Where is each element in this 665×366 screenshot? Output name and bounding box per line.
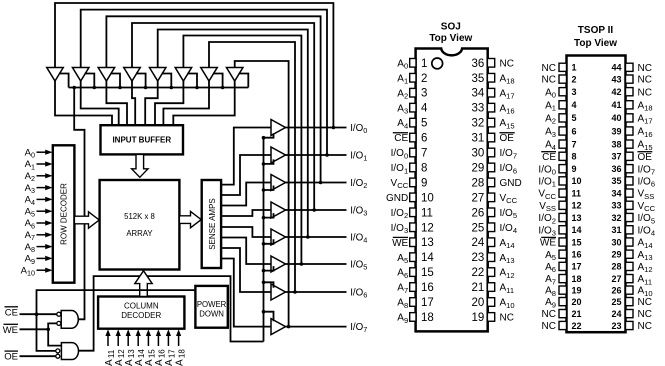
- node enable bus junction 4: [144, 86, 148, 90]
- arrowhead A11: [105, 329, 110, 336]
- svg-text:38: 38: [611, 139, 621, 149]
- svg-text:CE: CE: [5, 307, 18, 318]
- wire sense amp output 7 to output buffer 7: [221, 259, 271, 327]
- wire sense amp output 0 to output buffer 0: [221, 128, 271, 185]
- SOJ pin 6 overline: [393, 132, 408, 134]
- svg-text:17: 17: [572, 262, 582, 272]
- svg-text:A0: A0: [545, 87, 556, 99]
- SOJ package body: [416, 49, 488, 332]
- bubble U1 input 2: [57, 321, 61, 325]
- wire buffer 1 output to input buffer block: [55, 81, 112, 125]
- TSOP pin 9 box: [559, 165, 567, 173]
- wire input-buffer enable bus: [69, 87, 249, 89]
- svg-text:A14: A14: [638, 238, 653, 250]
- block INPUT BUFFER: [101, 125, 184, 154]
- arrowhead A5: [45, 209, 52, 214]
- TSOP pin 10 box: [559, 177, 567, 185]
- svg-text:36: 36: [611, 164, 621, 174]
- node enable bus junction 3: [118, 86, 122, 90]
- wire enable stub to output buffer 3: [264, 213, 274, 218]
- svg-text:A5: A5: [25, 206, 35, 218]
- svg-text:11: 11: [421, 207, 433, 219]
- SOJ pin 4 box: [410, 103, 416, 112]
- wire enable step buffer 1: [59, 74, 69, 88]
- wire enable step buffer 5: [162, 74, 172, 88]
- svg-text:16: 16: [421, 282, 434, 294]
- svg-text:I/O0: I/O0: [391, 148, 409, 160]
- wire feedback loop I/O0 (output line to input buffer 1): [55, 3, 333, 128]
- buffer input-stage triangle 8: [226, 68, 243, 82]
- wire CE: [20, 313, 57, 315]
- TSOP pin 30 box: [626, 238, 634, 246]
- svg-text:SENSE AMPS: SENSE AMPS: [208, 198, 217, 250]
- svg-text:9: 9: [572, 164, 577, 174]
- svg-text:7: 7: [572, 139, 577, 149]
- wire address input A9: [37, 257, 47, 259]
- gate U2 (output control AND gate): [61, 343, 78, 360]
- arrowhead A9: [45, 256, 52, 261]
- svg-text:WE: WE: [3, 325, 18, 336]
- TSOP pin 14 box: [559, 226, 567, 234]
- svg-text:28: 28: [611, 262, 621, 272]
- svg-text:A11: A11: [638, 274, 653, 286]
- svg-text:CE: CE: [394, 133, 408, 144]
- svg-text:4: 4: [572, 100, 577, 110]
- wire enable stub to output buffer 6: [264, 282, 274, 288]
- arrowhead A7: [45, 232, 52, 237]
- svg-text:27: 27: [611, 274, 621, 284]
- TSOP pin 17 box: [559, 262, 567, 270]
- SOJ pin 16 box: [410, 283, 416, 292]
- svg-text:A16: A16: [500, 103, 515, 115]
- svg-text:20: 20: [572, 297, 582, 307]
- TSOP pin 24 box: [626, 310, 634, 318]
- svg-text:A2: A2: [25, 171, 35, 183]
- svg-text:VCC: VCC: [638, 201, 656, 213]
- svg-text:25: 25: [611, 297, 621, 307]
- svg-text:I/O6: I/O6: [638, 177, 656, 189]
- svg-text:GND: GND: [386, 193, 408, 204]
- svg-text:39: 39: [611, 126, 621, 136]
- SOJ pin 27 box: [487, 193, 494, 202]
- TSOP pin 13 box: [559, 213, 567, 221]
- SOJ pin 13 overline: [393, 236, 408, 238]
- SOJ pin 12 box: [410, 223, 416, 232]
- svg-text:A10: A10: [500, 298, 515, 310]
- wire I/O5 output line: [286, 263, 347, 265]
- svg-text:10: 10: [421, 192, 434, 204]
- svg-text:I/O1: I/O1: [391, 163, 409, 175]
- svg-text:VSS: VSS: [638, 189, 655, 201]
- svg-text:OE: OE: [500, 133, 515, 144]
- TSOP pin 28 box: [626, 262, 634, 270]
- buffer output-stage triangle I/O3: [271, 202, 286, 218]
- svg-text:I/O1: I/O1: [538, 177, 556, 189]
- SOJ pin 8 box: [410, 163, 416, 172]
- svg-text:A10: A10: [638, 286, 653, 298]
- svg-text:28: 28: [472, 177, 485, 189]
- svg-text:COLUMN: COLUMN: [124, 301, 159, 310]
- wire feedback loop I/O3 (output line to input buffer 4): [132, 23, 314, 210]
- SOJ pin 2 box: [410, 73, 416, 82]
- svg-text:A15: A15: [638, 140, 653, 152]
- SOJ pin 22 box: [487, 268, 494, 277]
- arrowhead A18: [176, 329, 181, 336]
- svg-text:A12: A12: [500, 268, 515, 280]
- TSOP pin 8 box: [559, 152, 567, 160]
- svg-text:A8: A8: [25, 242, 35, 254]
- SOJ pin 33 box: [487, 103, 494, 112]
- svg-text:A8: A8: [545, 286, 556, 298]
- TSOP II package body: [567, 56, 626, 333]
- SOJ pin 21 box: [487, 283, 494, 292]
- SOJ pin 13 box: [410, 238, 416, 247]
- node junction loop I/O3 on output line: [312, 208, 316, 212]
- arrow array to sense amps (hollow right arrow): [179, 211, 201, 227]
- SOJ pin 17 box: [410, 298, 416, 307]
- svg-text:A6: A6: [397, 268, 408, 280]
- TSOP pin 38 box: [626, 140, 634, 148]
- wire address input A7: [37, 234, 47, 236]
- node junction loop I/O2 on output line: [319, 181, 323, 185]
- TSOP pin 15 overline: [541, 236, 556, 238]
- arrowhead A8: [45, 244, 52, 249]
- TSOP pin 36 box: [626, 165, 634, 173]
- svg-text:12: 12: [572, 201, 582, 211]
- svg-text:5: 5: [572, 113, 577, 123]
- wire sense amp output 3 to output buffer 3: [221, 210, 271, 216]
- svg-text:SOJ: SOJ: [441, 22, 461, 33]
- wire address input A6: [37, 222, 47, 224]
- arrowhead A6: [45, 220, 52, 225]
- arrowhead A12: [116, 329, 121, 336]
- wire enable step buffer 7: [213, 74, 223, 88]
- TSOP pin 37 box: [626, 152, 634, 160]
- svg-text:VSS: VSS: [539, 201, 556, 213]
- TSOP pin 42 box: [626, 88, 634, 96]
- arrowhead A13: [126, 329, 131, 336]
- svg-text:32: 32: [611, 213, 621, 223]
- svg-text:18: 18: [421, 312, 434, 324]
- svg-text:16: 16: [572, 250, 582, 260]
- svg-text:10: 10: [572, 176, 582, 186]
- svg-text:VCC: VCC: [391, 178, 409, 190]
- svg-text:A14: A14: [500, 238, 515, 250]
- arrowhead A17: [166, 329, 171, 336]
- buffer output-stage triangle I/O1: [271, 147, 286, 163]
- wire feedback loop I/O2 (output line to input buffer 3): [106, 16, 320, 182]
- svg-text:31: 31: [472, 133, 485, 145]
- wire address input A15: [147, 333, 149, 346]
- svg-text:25: 25: [472, 222, 485, 234]
- wire I/O2 output line: [286, 182, 347, 184]
- svg-text:OE: OE: [4, 352, 18, 363]
- wire I/O1 output line: [286, 154, 347, 156]
- wire address input A5: [37, 210, 47, 212]
- svg-text:11: 11: [572, 188, 582, 198]
- svg-text:A7: A7: [545, 274, 556, 286]
- svg-text:I/O2: I/O2: [538, 213, 556, 225]
- svg-text:5: 5: [421, 118, 427, 130]
- svg-text:I/O0: I/O0: [350, 123, 367, 135]
- svg-text:3: 3: [421, 88, 427, 100]
- svg-text:A4: A4: [25, 195, 35, 207]
- svg-text:A1: A1: [397, 73, 408, 85]
- wire address input A0: [37, 151, 47, 153]
- wire enable step buffer 6: [187, 74, 197, 88]
- svg-text:27: 27: [472, 192, 485, 204]
- svg-text:34: 34: [472, 88, 485, 100]
- wire buffer 7 output to input buffer block: [163, 81, 209, 125]
- node output enable junction 6: [262, 281, 266, 285]
- svg-text:30: 30: [611, 237, 621, 247]
- TSOP pin 25 box: [626, 298, 634, 306]
- SOJ pin 18 box: [410, 313, 416, 322]
- TSOP pin 7 box: [559, 140, 567, 148]
- TSOP pin 4 box: [559, 101, 567, 109]
- arrowhead A15: [146, 329, 151, 336]
- TSOP pin 5 box: [559, 114, 567, 122]
- TSOP pin 22 box: [559, 321, 567, 329]
- SOJ pin 34 box: [487, 88, 494, 97]
- TSOP pin 37 overline: [638, 151, 653, 153]
- svg-text:I/O7: I/O7: [350, 322, 367, 334]
- svg-text:VCC: VCC: [500, 193, 518, 205]
- wire enable stub to output buffer 2: [264, 186, 274, 191]
- svg-text:1: 1: [421, 58, 427, 70]
- wire WE to gate U1: [48, 323, 57, 329]
- svg-text:24: 24: [611, 309, 621, 319]
- svg-text:I/O6: I/O6: [350, 287, 367, 299]
- svg-text:A18: A18: [500, 73, 515, 85]
- svg-text:A3: A3: [397, 103, 408, 115]
- wire buffer 2 output to input buffer block: [81, 81, 119, 125]
- svg-text:A13: A13: [500, 253, 515, 265]
- svg-text:40: 40: [611, 113, 621, 123]
- svg-text:12: 12: [421, 222, 434, 234]
- svg-text:A6: A6: [25, 218, 35, 230]
- node output enable junction 5: [262, 269, 266, 273]
- wire I/O4 output line: [286, 236, 347, 238]
- svg-text:NC: NC: [638, 309, 652, 320]
- SOJ pin 31 box: [487, 133, 494, 142]
- svg-text:I/O7: I/O7: [500, 148, 518, 160]
- wire buffer 4 output to input buffer block: [132, 81, 135, 125]
- bubble U2 input 2: [56, 354, 60, 358]
- TSOP pin 31 box: [626, 226, 634, 234]
- svg-text:26: 26: [611, 285, 621, 295]
- wire address input A8: [37, 246, 47, 248]
- node enable bus junction 6: [195, 86, 199, 90]
- wire enable stub to output buffer 1: [264, 159, 274, 164]
- SOJ pin 1 box: [410, 59, 416, 68]
- TSOP pin 27 box: [626, 275, 634, 283]
- SOJ pin 7 box: [410, 148, 416, 157]
- svg-text:A5: A5: [397, 253, 408, 265]
- wire sense amp output 1 to output buffer 1: [221, 155, 271, 195]
- svg-text:19: 19: [472, 312, 485, 324]
- svg-text:NC: NC: [542, 63, 556, 74]
- svg-text:9: 9: [421, 177, 427, 189]
- TSOP pin 43 box: [626, 75, 634, 83]
- svg-text:I/O5: I/O5: [500, 208, 518, 220]
- SOJ pin 23 box: [487, 253, 494, 262]
- svg-text:CE: CE: [542, 152, 556, 163]
- buffer input-stage triangle 2: [72, 68, 89, 82]
- wire feedback loop I/O4 (output line to input buffer 5): [158, 30, 308, 238]
- wire address input A12: [117, 333, 119, 346]
- TSOP pin 11 box: [559, 189, 567, 197]
- svg-text:21: 21: [572, 309, 582, 319]
- svg-text:23: 23: [472, 252, 485, 264]
- svg-text:A10: A10: [21, 265, 35, 277]
- SOJ pin 1 index circle: [432, 58, 443, 69]
- svg-text:NC: NC: [638, 321, 652, 332]
- svg-text:A17: A17: [500, 88, 515, 100]
- wire address input A14: [137, 333, 139, 346]
- SOJ pin 9 box: [410, 178, 416, 187]
- svg-text:I/O1: I/O1: [350, 150, 367, 162]
- wire enable stub to output buffer 4: [264, 239, 274, 244]
- svg-text:13: 13: [421, 237, 434, 249]
- TSOP pin 40 box: [626, 114, 634, 122]
- wire address input A18: [178, 333, 180, 346]
- buffer output-stage triangle I/O7: [271, 319, 286, 335]
- svg-text:VCC: VCC: [538, 189, 556, 201]
- svg-text:42: 42: [611, 87, 621, 97]
- TSOP pin 21 box: [559, 310, 567, 318]
- svg-text:6: 6: [421, 133, 427, 145]
- svg-text:A7: A7: [25, 230, 35, 242]
- TSOP pin 8 overline: [541, 151, 556, 153]
- svg-text:NC: NC: [542, 75, 556, 86]
- svg-text:A0: A0: [397, 58, 408, 70]
- block 512K x 8 ARRAY: [100, 180, 180, 270]
- SOJ pin 28 box: [487, 178, 494, 187]
- block SENSE AMPS: [202, 180, 221, 268]
- SOJ pin 19 box: [487, 313, 494, 322]
- svg-text:29: 29: [611, 250, 621, 260]
- block ROW DECODER: [53, 145, 75, 282]
- arrow row decoder to array (hollow right arrow): [74, 212, 99, 228]
- svg-text:2: 2: [421, 73, 427, 85]
- SOJ pin 30 box: [487, 148, 494, 157]
- arrowhead A10: [45, 268, 52, 273]
- node output enable junction 7: [262, 310, 266, 314]
- TSOP pin 26 box: [626, 286, 634, 294]
- svg-text:I/O7: I/O7: [638, 164, 656, 176]
- svg-text:A16: A16: [638, 127, 653, 139]
- arrowhead A2: [45, 173, 52, 178]
- svg-text:A8: A8: [397, 298, 408, 310]
- svg-text:NC: NC: [638, 87, 652, 98]
- TSOP pin 15 box: [559, 238, 567, 246]
- wire I/O0 output line: [286, 127, 347, 129]
- TSOP pin 29 box: [626, 250, 634, 258]
- svg-text:ARRAY: ARRAY: [126, 229, 153, 238]
- buffer output-stage triangle I/O6: [271, 284, 286, 300]
- svg-text:I/O3: I/O3: [391, 223, 409, 235]
- TSOP pin 19 box: [559, 286, 567, 294]
- node junction loop I/O0 on output line: [332, 126, 336, 130]
- node CE junction: [35, 312, 39, 316]
- svg-text:A9: A9: [545, 297, 556, 309]
- svg-text:NC: NC: [638, 63, 652, 74]
- wire sense amp output 5 to output buffer 5: [221, 238, 271, 265]
- svg-text:21: 21: [472, 282, 485, 294]
- svg-text:32: 32: [472, 118, 485, 130]
- wire address input A11: [107, 333, 109, 346]
- svg-text:18: 18: [572, 274, 582, 284]
- SOJ pin 15 box: [410, 268, 416, 277]
- node enable bus junction 2: [93, 86, 97, 90]
- svg-text:I/O2: I/O2: [391, 208, 409, 220]
- svg-text:A2: A2: [545, 114, 556, 126]
- svg-text:A2: A2: [397, 88, 408, 100]
- svg-text:14: 14: [421, 252, 434, 264]
- gate U1 (write control AND gate): [61, 311, 78, 329]
- wire CE riser to power down: [37, 290, 196, 314]
- arrowhead A3: [45, 185, 52, 190]
- node enable bus junction 7: [221, 86, 225, 90]
- svg-text:I/O5: I/O5: [350, 259, 367, 271]
- wire enable stub to output buffer 0: [264, 133, 274, 138]
- SOJ pin 20 box: [487, 298, 494, 307]
- buffer input-stage triangle 4: [124, 68, 141, 82]
- bubble U1 input 1: [57, 312, 61, 316]
- svg-text:33: 33: [472, 103, 485, 115]
- svg-text:30: 30: [472, 148, 485, 160]
- TSOP pin 39 box: [626, 127, 634, 135]
- svg-text:8: 8: [572, 152, 577, 162]
- TSOP pin 12 box: [559, 201, 567, 209]
- node enable bus junction 5: [170, 86, 174, 90]
- overline CE: [5, 306, 19, 308]
- TSOP pin 44 box: [626, 63, 634, 71]
- wire CE drop to gate U2: [37, 314, 56, 351]
- svg-text:8: 8: [421, 162, 427, 174]
- overline WE: [4, 323, 19, 325]
- svg-text:31: 31: [611, 225, 621, 235]
- node output enable junction 4: [262, 242, 266, 246]
- svg-text:GND: GND: [500, 178, 522, 189]
- svg-text:6: 6: [572, 126, 577, 136]
- block POWER DOWN: [195, 286, 227, 328]
- wire enable step buffer 3: [110, 74, 120, 88]
- SOJ pin 3 box: [410, 88, 416, 97]
- TSOP pin 20 box: [559, 298, 567, 306]
- SOJ pin 14 box: [410, 253, 416, 262]
- svg-text:OE: OE: [638, 152, 653, 163]
- svg-text:A1: A1: [25, 159, 35, 171]
- wire feedback loop I/O5 (output line to input buffer 6): [183, 36, 301, 265]
- node junction loop I/O1 on output line: [325, 153, 329, 157]
- svg-text:22: 22: [472, 267, 485, 279]
- wire address input A16: [157, 333, 159, 346]
- wire buffer 8 output to input buffer block: [173, 81, 234, 125]
- svg-text:I/O4: I/O4: [638, 225, 656, 237]
- svg-text:15: 15: [421, 267, 434, 279]
- SOJ pin 31 overline: [500, 132, 515, 134]
- wire enable step buffer 2: [85, 74, 95, 88]
- arrowhead A14: [136, 329, 141, 336]
- svg-text:DECODER: DECODER: [121, 311, 161, 320]
- svg-text:41: 41: [611, 100, 621, 110]
- svg-text:19: 19: [572, 285, 582, 295]
- arrow input buffer to array (hollow down arrow): [132, 154, 148, 177]
- TSOP pin 6 box: [559, 127, 567, 135]
- wire WE drop to gate U2: [48, 329, 61, 345]
